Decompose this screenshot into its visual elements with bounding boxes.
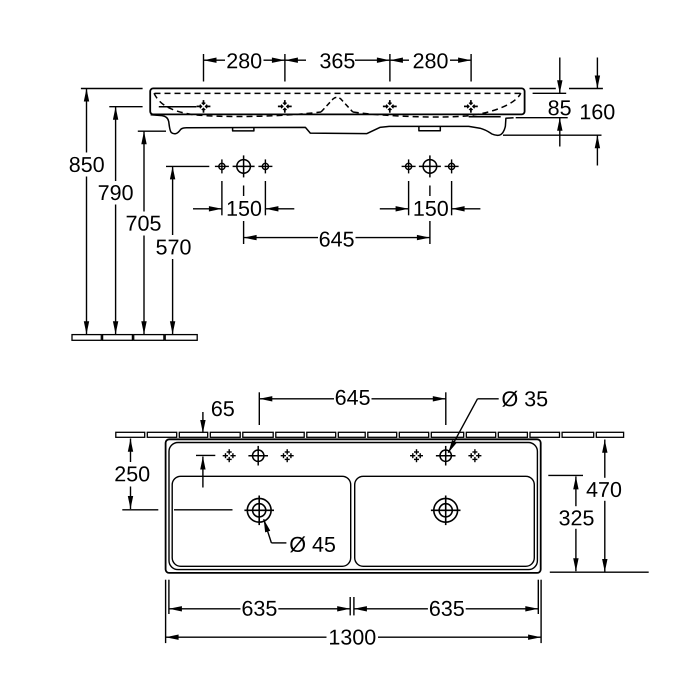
basin outer edge: [166, 439, 541, 573]
wall fixing holes on apron: [197, 100, 211, 113]
hidden interior: dashed centre divider: [321, 97, 353, 112]
leader Ø35: [448, 399, 498, 453]
dimension 570: [166, 166, 209, 334]
dimension 325: [548, 475, 583, 571]
underside fixing tab left: [233, 128, 254, 131]
plan drain holes: [244, 496, 274, 526]
basin rim inner edge: [169, 443, 537, 570]
plan tap holes: [223, 449, 236, 462]
left bowl: [172, 476, 351, 566]
wall strip: [116, 432, 624, 437]
dimension 635 right: [354, 608, 538, 610]
overflow slot left bowl: [159, 106, 197, 108]
dimension 470: [550, 440, 649, 573]
leader Ø45: [264, 519, 287, 543]
dimension 790: [109, 107, 142, 334]
underside profile of basin: [151, 115, 514, 136]
dimension 85 right: [516, 58, 568, 147]
dimension 250: [122, 439, 232, 510]
hidden interior: dashed rim line: [155, 92, 521, 94]
dimension 635 left: [169, 608, 350, 610]
dimension 850: [81, 89, 143, 335]
bottom extension lines: [166, 580, 541, 643]
dimension 65: [196, 412, 215, 488]
dimension 645 plan: [259, 392, 446, 425]
dimension 150 right group: [380, 181, 481, 215]
underside fixing tab right: [419, 126, 440, 130]
dimension 705: [138, 131, 166, 334]
right bowl: [355, 476, 535, 566]
underside recess line right: [469, 116, 501, 118]
dimension 645 elevation: [244, 186, 430, 245]
hidden interior: dashed bowl bottoms: [154, 93, 321, 116]
supply/drain connection holes below basin: [215, 155, 459, 177]
basin body outline: [150, 88, 524, 114]
dimension 1300: [166, 636, 541, 638]
dimension 280/365/280 top: [204, 54, 472, 82]
floor hatch strip: [72, 335, 197, 341]
dimension 160 right: [503, 58, 603, 166]
dimension 150 left group: [193, 181, 294, 215]
